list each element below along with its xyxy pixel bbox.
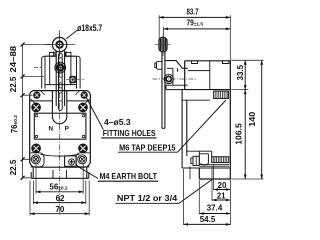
svg-text:106.5: 106.5 bbox=[234, 123, 243, 145]
arrows bottom dims bbox=[30, 190, 89, 215]
svg-text:20: 20 bbox=[218, 181, 227, 190]
svg-text:24–88: 24–88 bbox=[9, 45, 18, 72]
svg-text:140: 140 bbox=[248, 111, 257, 127]
svg-text:P: P bbox=[65, 126, 69, 133]
svg-text:83.7: 83.7 bbox=[187, 8, 199, 17]
right foot pad bbox=[76, 153, 90, 167]
svg-text:76±0.2: 76±0.2 bbox=[10, 115, 19, 134]
callout M4 EARTH BOLT bbox=[77, 166, 158, 181]
inner cover rect with N P bbox=[34, 113, 86, 139]
callout o18x5.7 bbox=[66, 23, 102, 39]
NPT thread (side, hatched) bbox=[212, 157, 229, 163]
callout NPT 1/2 or 3/4 bbox=[115, 179, 212, 203]
head pivot (side) bbox=[153, 74, 198, 83]
svg-text:62: 62 bbox=[56, 194, 65, 203]
svg-text:N: N bbox=[49, 126, 54, 133]
body outline (front) bbox=[30, 91, 91, 179]
callout M6 TAP DEEP15 bbox=[118, 100, 226, 152]
left foot pad bbox=[31, 153, 45, 167]
gasket wavy line (front) bbox=[41, 154, 80, 156]
svg-text:4–ø5.3: 4–ø5.3 bbox=[104, 118, 131, 127]
svg-text:NPT 1/2 or 3/4: NPT 1/2 or 3/4 bbox=[117, 193, 178, 203]
svg-text:37.4: 37.4 bbox=[207, 204, 223, 213]
pivot bolt (front) bbox=[55, 62, 66, 73]
earth bolt box (front) bbox=[65, 156, 77, 166]
lever arm (front) bbox=[56, 51, 64, 111]
svg-text:M6 TAP DEEP15: M6 TAP DEEP15 bbox=[119, 142, 176, 152]
left dim line bbox=[21, 43, 51, 180]
svg-text:FITTING HOLES: FITTING HOLES bbox=[103, 128, 156, 138]
svg-text:79±1.5: 79±1.5 bbox=[187, 18, 204, 27]
lever boot U (front) bbox=[52, 91, 66, 124]
fitting hole screws 4-o5.3 (front, small with cross) bbox=[31, 92, 87, 164]
head block (front) bbox=[31, 52, 89, 104]
roller R (front) bbox=[45, 34, 76, 56]
svg-text:22.5: 22.5 bbox=[9, 159, 18, 175]
svg-text:M4 EARTH BOLT: M4 EARTH BOLT bbox=[100, 171, 158, 181]
center line front view bbox=[59, 30, 61, 215]
callout 4-o5.3 FITTING HOLES bbox=[86, 97, 157, 138]
svg-text:54.5: 54.5 bbox=[200, 215, 216, 224]
M6 tap hole (side, hatched) bbox=[214, 91, 229, 98]
conduit boss (side) bbox=[187, 151, 229, 179]
body (side) bbox=[182, 61, 230, 179]
big cover screws (front) bbox=[32, 103, 87, 153]
head clamp screw (front) bbox=[34, 68, 84, 84]
lever clamp tab (side) bbox=[155, 61, 162, 69]
svg-text:56±0.2: 56±0.2 bbox=[49, 183, 68, 192]
svg-text:22.5: 22.5 bbox=[9, 76, 18, 92]
svg-text:ø18x5.7: ø18x5.7 bbox=[77, 23, 102, 33]
svg-text:33.5: 33.5 bbox=[236, 64, 245, 80]
svg-text:70: 70 bbox=[55, 205, 64, 214]
head (side) bbox=[165, 61, 188, 90]
svg-text:21: 21 bbox=[217, 192, 226, 201]
roller (side) bbox=[155, 34, 171, 56]
lever arm (side) bbox=[162, 52, 165, 129]
